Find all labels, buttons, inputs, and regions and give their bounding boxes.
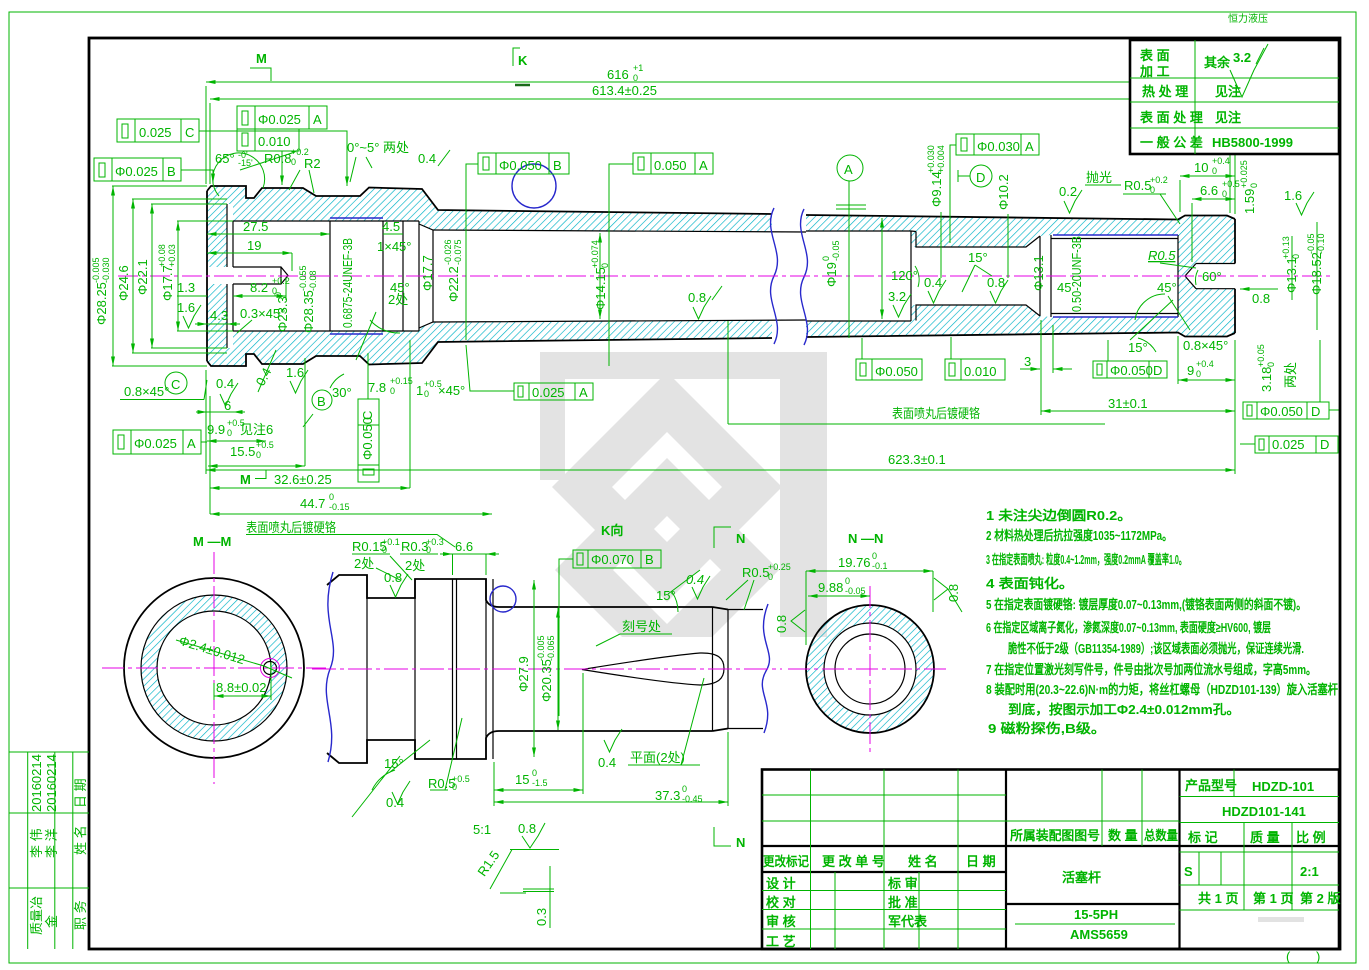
svg-text:1.59: 1.59 bbox=[1242, 189, 1257, 214]
svg-text:6 在指定区域离子氮化，渗氮深度0.07~0.13mm, 表: 6 在指定区域离子氮化，渗氮深度0.07~0.13mm, 表面硬度≥HV600,… bbox=[986, 620, 1271, 635]
svg-text:Φ19: Φ19 bbox=[824, 262, 839, 287]
fcf d0.025 B bbox=[94, 158, 181, 181]
svg-text:0: 0 bbox=[256, 450, 261, 460]
svg-text:+0.13: +0.13 bbox=[1281, 236, 1291, 259]
svg-text:标 记: 标 记 bbox=[1187, 830, 1218, 845]
svg-text:质量冶: 质量冶 bbox=[29, 896, 44, 935]
watermark diamond ring B bbox=[555, 458, 779, 682]
svg-text:+0.074: +0.074 bbox=[590, 240, 600, 268]
svg-text:A: A bbox=[313, 112, 322, 127]
svg-text:Φ28.35: Φ28.35 bbox=[301, 290, 316, 333]
SECTION M-M bbox=[102, 534, 326, 784]
svg-text:Φ28.25: Φ28.25 bbox=[94, 282, 109, 325]
svg-text:4.5: 4.5 bbox=[382, 219, 400, 234]
svg-text:批 准: 批 准 bbox=[888, 895, 918, 910]
svg-text:Φ24.6: Φ24.6 bbox=[116, 265, 131, 301]
svg-text:所属装配图图号: 所属装配图图号 bbox=[1010, 828, 1100, 843]
svg-text:工 艺: 工 艺 bbox=[766, 934, 796, 949]
svg-text:Φ0.030: Φ0.030 bbox=[977, 139, 1020, 154]
two places rotated bbox=[1283, 362, 1298, 388]
svg-text:20160214: 20160214 bbox=[44, 754, 59, 812]
svg-text:): ) bbox=[1316, 949, 1320, 964]
svg-text:-0.065: -0.065 bbox=[546, 635, 556, 661]
svg-text:0: 0 bbox=[845, 576, 850, 586]
fcf 0.050 A bbox=[633, 153, 713, 174]
svg-text:15-5PH: 15-5PH bbox=[1074, 907, 1118, 922]
svg-text:0.4: 0.4 bbox=[386, 795, 404, 810]
svg-text:0.025: 0.025 bbox=[1272, 437, 1305, 452]
svg-text:Φ17.7: Φ17.7 bbox=[160, 265, 175, 301]
svg-text:HDZD101-141: HDZD101-141 bbox=[1222, 804, 1306, 819]
finish 0.8 left bbox=[791, 610, 805, 632]
svg-text:Φ23.3: Φ23.3 bbox=[275, 296, 290, 332]
svg-text:×45°: ×45° bbox=[438, 383, 465, 398]
fcf 0.010 mid bbox=[945, 359, 1005, 380]
shaft outline bottom right bbox=[806, 333, 1235, 338]
svg-text:616: 616 bbox=[607, 67, 629, 82]
left signature strip bbox=[9, 752, 89, 949]
svg-text:0: 0 bbox=[1249, 183, 1259, 188]
svg-text:平面(2处): 平面(2处) bbox=[630, 750, 685, 765]
dia 19 rotated bbox=[821, 240, 841, 287]
svg-text:+0.4: +0.4 bbox=[1196, 359, 1214, 369]
svg-text:19: 19 bbox=[247, 238, 261, 253]
svg-text:D: D bbox=[1153, 363, 1162, 378]
svg-text:0: 0 bbox=[424, 389, 429, 399]
NOTES bbox=[986, 508, 1338, 736]
watermark right bar bbox=[780, 352, 827, 637]
svg-text:B: B bbox=[167, 164, 176, 179]
finish 0.4 rotated bbox=[253, 365, 275, 388]
svg-text:R0.5: R0.5 bbox=[1124, 178, 1151, 193]
svg-text:产品型号: 产品型号 bbox=[1185, 778, 1237, 793]
dia 17.7 rotated bbox=[420, 255, 435, 291]
svg-text:-0.026: -0.026 bbox=[443, 239, 453, 265]
svg-text:AMS5659: AMS5659 bbox=[1070, 927, 1128, 942]
dia 13.1 tol rotated bbox=[1281, 236, 1301, 293]
svg-text:0.8: 0.8 bbox=[1252, 291, 1270, 306]
svg-text:审 核: 审 核 bbox=[766, 914, 796, 929]
outer circle bbox=[806, 605, 934, 733]
svg-text:设 计: 设 计 bbox=[766, 876, 796, 891]
WATERMARK bbox=[540, 12, 1268, 682]
svg-text:1.6: 1.6 bbox=[286, 365, 304, 380]
svg-text:120°: 120° bbox=[891, 268, 918, 283]
svg-text:0.010: 0.010 bbox=[258, 134, 291, 149]
svg-text:0.4: 0.4 bbox=[924, 275, 942, 290]
svg-text:Φ13.1: Φ13.1 bbox=[1031, 255, 1046, 291]
svg-text:(: ( bbox=[1286, 949, 1291, 964]
svg-text:姓 名: 姓 名 bbox=[73, 825, 88, 855]
svg-text:19.76: 19.76 bbox=[838, 555, 871, 570]
svg-text:B: B bbox=[645, 552, 654, 567]
fcf d0.050 D right bbox=[1243, 402, 1329, 419]
svg-text:S: S bbox=[1184, 864, 1193, 879]
svg-text:D: D bbox=[976, 170, 985, 185]
svg-text:Φ0.050: Φ0.050 bbox=[1260, 404, 1303, 419]
svg-text:9.88: 9.88 bbox=[818, 580, 843, 595]
svg-text:抛光: 抛光 bbox=[1086, 170, 1112, 185]
svg-text:Φ0.025: Φ0.025 bbox=[258, 112, 301, 127]
svg-text:0: 0 bbox=[600, 263, 610, 268]
right thread bore blue lines bbox=[1053, 235, 1178, 317]
hatch top band right bbox=[806, 215, 1235, 276]
hatch ring bbox=[806, 605, 934, 733]
left cavity bore lines bbox=[233, 221, 433, 331]
fcf d0.025 A top bbox=[237, 106, 327, 129]
svg-text:-0.1: -0.1 bbox=[872, 561, 888, 571]
svg-text:脆性不低于2级（GB11354-1989）;该区域表面必须抛: 脆性不低于2级（GB11354-1989）;该区域表面必须抛光，保证连续光滑. bbox=[1007, 641, 1304, 656]
svg-text:0.50-20UNF-3B: 0.50-20UNF-3B bbox=[1069, 236, 1084, 312]
svg-text:2:1: 2:1 bbox=[1300, 864, 1319, 879]
watermark left bar bbox=[540, 352, 565, 480]
svg-text:日 期: 日 期 bbox=[73, 778, 88, 808]
hatch top band left bbox=[207, 186, 772, 267]
svg-text:见注6: 见注6 bbox=[240, 422, 273, 437]
svg-text:-0.005: -0.005 bbox=[536, 635, 546, 661]
svg-text:0.4: 0.4 bbox=[598, 755, 616, 770]
svg-text:4 表面钝化。: 4 表面钝化。 bbox=[986, 576, 1074, 591]
shaft left end face bbox=[206, 191, 208, 361]
svg-text:HB5800-1999: HB5800-1999 bbox=[1212, 135, 1293, 150]
svg-text:A: A bbox=[187, 436, 196, 451]
svg-text:+0.05: +0.05 bbox=[1256, 344, 1266, 367]
svg-text:0: 0 bbox=[329, 492, 334, 502]
GREEN ANNOTATIONS MAIN BOTTOM bbox=[113, 300, 1340, 547]
svg-text:1×45°: 1×45° bbox=[377, 239, 411, 254]
svg-text:A: A bbox=[844, 162, 853, 177]
svg-text:0.8: 0.8 bbox=[688, 290, 706, 305]
dia 20.35 rotated bbox=[536, 635, 556, 702]
middle circle bbox=[824, 623, 916, 715]
svg-text:B: B bbox=[317, 394, 326, 409]
svg-text:加 工: 加 工 bbox=[1139, 64, 1170, 79]
svg-text:0°~5° 两处: 0°~5° 两处 bbox=[347, 140, 409, 155]
svg-text:Φ0.050: Φ0.050 bbox=[499, 158, 542, 173]
svg-text:比 例: 比 例 bbox=[1296, 830, 1326, 845]
svg-text:45°: 45° bbox=[1157, 280, 1177, 295]
section arrow N top bbox=[714, 527, 731, 548]
svg-text:32.6±0.25: 32.6±0.25 bbox=[274, 472, 332, 487]
fcf d0.025 A lower left bbox=[113, 430, 201, 454]
K VIEW bbox=[312, 523, 791, 928]
svg-text:8.2: 8.2 bbox=[250, 280, 268, 295]
svg-text:1.6: 1.6 bbox=[1284, 188, 1302, 203]
thread 0.6875 rotated bbox=[340, 238, 355, 328]
hatch ring bbox=[141, 595, 287, 741]
svg-text:+1: +1 bbox=[633, 63, 643, 73]
svg-text:0.8: 0.8 bbox=[946, 584, 961, 602]
svg-text:表面喷丸后镀硬铬: 表面喷丸后镀硬铬 bbox=[246, 520, 336, 535]
fcf d0.070 B bbox=[573, 550, 661, 568]
centrelines bbox=[869, 586, 871, 752]
svg-text:更改标记: 更改标记 bbox=[763, 854, 809, 869]
datum C bbox=[165, 372, 187, 394]
svg-text:0: 0 bbox=[821, 256, 831, 261]
fcf 0.010 top bbox=[237, 129, 299, 151]
break wave right bbox=[801, 209, 808, 345]
svg-text:总数量: 总数量 bbox=[1144, 828, 1178, 843]
dia 10.2 rotated bbox=[996, 174, 1011, 210]
GREEN ANNOTATIONS MAIN TOP bbox=[91, 48, 1326, 366]
svg-text:M —M: M —M bbox=[193, 534, 231, 549]
svg-text:金: 金 bbox=[44, 915, 59, 928]
dia 17.7 plus rotated bbox=[157, 244, 177, 301]
svg-text:5:1: 5:1 bbox=[473, 822, 491, 837]
svg-text:+0.08: +0.08 bbox=[157, 244, 167, 267]
svg-text:45: 45 bbox=[1057, 280, 1071, 295]
svg-text:0: 0 bbox=[1266, 362, 1276, 367]
tip section bbox=[728, 610, 763, 729]
svg-text:K向: K向 bbox=[601, 523, 623, 538]
svg-text:D: D bbox=[1320, 437, 1329, 452]
svg-text:K: K bbox=[518, 53, 528, 68]
svg-text:C: C bbox=[360, 411, 375, 420]
svg-text:校 对: 校 对 bbox=[766, 895, 796, 910]
svg-text:第 1 页: 第 1 页 bbox=[1253, 891, 1293, 906]
svg-text:Φ22.2: Φ22.2 bbox=[446, 266, 461, 302]
small hole bbox=[264, 662, 277, 675]
svg-text:热 处 理: 热 处 理 bbox=[1142, 84, 1188, 99]
svg-text:-0.15: -0.15 bbox=[329, 502, 350, 512]
svg-text:15°: 15° bbox=[968, 250, 988, 265]
svg-text:0.4: 0.4 bbox=[216, 376, 234, 391]
right end slot bbox=[1185, 264, 1235, 289]
shaft right end face bbox=[1234, 219, 1236, 333]
dim 616 bbox=[206, 81, 1235, 83]
inner circle bbox=[835, 634, 905, 704]
svg-text:6.6: 6.6 bbox=[1200, 183, 1218, 198]
outline bottom bbox=[327, 729, 728, 764]
svg-text:+0.25: +0.25 bbox=[768, 562, 791, 572]
dia 13.1 rotated bbox=[1031, 255, 1046, 291]
svg-text:37.3: 37.3 bbox=[655, 788, 680, 803]
break wave right bbox=[762, 604, 769, 733]
svg-text:1 未注尖边倒圆R0.2。: 1 未注尖边倒圆R0.2。 bbox=[986, 508, 1132, 523]
right thread bore black lines bbox=[1051, 235, 1178, 317]
svg-text:0.8: 0.8 bbox=[774, 615, 789, 633]
svg-text:共 1 页: 共 1 页 bbox=[1198, 891, 1238, 906]
svg-text:姓 名: 姓 名 bbox=[907, 854, 938, 869]
svg-text:0: 0 bbox=[872, 551, 877, 561]
dia 9.14 rotated bbox=[926, 145, 946, 207]
svg-text:+0.2: +0.2 bbox=[272, 276, 290, 286]
svg-text:表面喷丸后镀硬铬: 表面喷丸后镀硬铬 bbox=[892, 406, 980, 421]
svg-text:-0.08: -0.08 bbox=[308, 270, 318, 291]
dia 2.4 label bbox=[177, 633, 247, 667]
svg-text:4.3: 4.3 bbox=[210, 308, 228, 323]
dia 14.15 rotated bbox=[590, 240, 610, 310]
section arrow N bottom bbox=[714, 827, 731, 846]
main bore right bbox=[806, 231, 1051, 321]
internal verticals bbox=[367, 575, 728, 763]
svg-text:0.025: 0.025 bbox=[532, 385, 565, 400]
svg-text:A: A bbox=[699, 158, 708, 173]
svg-text:Φ0.070: Φ0.070 bbox=[591, 552, 634, 567]
svg-text:0.2: 0.2 bbox=[1059, 184, 1077, 199]
svg-text:20160214: 20160214 bbox=[29, 754, 44, 812]
svg-text:职 务: 职 务 bbox=[73, 900, 88, 930]
blue detail circle B zone bbox=[512, 164, 556, 208]
svg-text:HDZD-101: HDZD-101 bbox=[1252, 779, 1314, 794]
fcf d0.050 D mid bbox=[1093, 361, 1167, 378]
svg-text:0: 0 bbox=[227, 428, 232, 438]
svg-text:613.4±0.25: 613.4±0.25 bbox=[592, 83, 657, 98]
svg-text:+0.5: +0.5 bbox=[1222, 179, 1240, 189]
svg-text:0.8×45°: 0.8×45° bbox=[1183, 338, 1228, 353]
fcf d0.030 A bbox=[956, 134, 1039, 155]
dia 28.35 rotated bbox=[298, 265, 318, 333]
svg-text:0: 0 bbox=[532, 768, 537, 778]
svg-text:-0.005: -0.005 bbox=[91, 257, 101, 283]
svg-text:0.050: 0.050 bbox=[654, 158, 687, 173]
svg-text:9 磁粉探伤,B级。: 9 磁粉探伤,B级。 bbox=[988, 721, 1106, 736]
svg-text:0: 0 bbox=[390, 386, 395, 396]
svg-text:质 量: 质 量 bbox=[1250, 830, 1280, 845]
svg-text:标 审: 标 审 bbox=[887, 876, 918, 891]
svg-text:Φ0.025: Φ0.025 bbox=[115, 164, 158, 179]
svg-text:0.3: 0.3 bbox=[534, 908, 549, 926]
R1.5 rotated bbox=[474, 848, 502, 879]
svg-text:+0.15: +0.15 bbox=[390, 376, 413, 386]
svg-text:-1.5: -1.5 bbox=[532, 778, 548, 788]
shaft outline bottom left bbox=[207, 338, 772, 366]
watermark top bar bbox=[540, 352, 827, 379]
svg-text:-0.05: -0.05 bbox=[845, 586, 866, 596]
svg-text:623.3±0.1: 623.3±0.1 bbox=[888, 452, 946, 467]
svg-text:0.4: 0.4 bbox=[418, 151, 436, 166]
svg-text:0: 0 bbox=[273, 292, 283, 297]
svg-text:0.8: 0.8 bbox=[518, 821, 536, 836]
groove detail circle bbox=[490, 586, 516, 612]
svg-text:+0.025: +0.025 bbox=[1239, 160, 1249, 188]
svg-text:3.18: 3.18 bbox=[1259, 367, 1274, 392]
centreline bbox=[312, 668, 782, 670]
dia 22.1 rotated bbox=[135, 259, 150, 295]
svg-text:Φ17.7: Φ17.7 bbox=[420, 255, 435, 291]
svg-text:0.8×45°: 0.8×45° bbox=[124, 384, 169, 399]
svg-text:+0.4: +0.4 bbox=[1212, 156, 1230, 166]
svg-text:-0.05: -0.05 bbox=[1306, 233, 1316, 254]
svg-text:31±0.1: 31±0.1 bbox=[1108, 396, 1148, 411]
dim 1.59 rotated bbox=[1239, 160, 1259, 214]
svg-text:其余: 其余 bbox=[1204, 55, 1231, 70]
svg-text:0: 0 bbox=[1222, 189, 1227, 199]
svg-text:3.2: 3.2 bbox=[888, 289, 906, 304]
svg-text:C: C bbox=[185, 125, 194, 140]
left cavity thread blue lines bbox=[330, 218, 383, 334]
svg-text:2处: 2处 bbox=[405, 558, 425, 573]
svg-text:Φ9.14: Φ9.14 bbox=[929, 171, 944, 207]
svg-text:+0.2: +0.2 bbox=[1150, 175, 1168, 185]
hatch bottom band right bbox=[806, 276, 1235, 337]
svg-text:恒力液压: 恒力液压 bbox=[1228, 12, 1268, 25]
svg-text:两处: 两处 bbox=[1283, 362, 1298, 388]
svg-text:0: 0 bbox=[633, 73, 638, 83]
svg-text:0: 0 bbox=[1196, 369, 1201, 379]
detail sketch lines bbox=[490, 850, 559, 894]
fcf d0.050 B bbox=[478, 153, 569, 174]
MAIN VIEW bbox=[118, 164, 1330, 366]
svg-text:8 装配时用(20.3~22.6)N·m的力矩，将丝杠螺母（: 8 装配时用(20.3~22.6)N·m的力矩，将丝杠螺母（HDZD101-13… bbox=[986, 682, 1338, 697]
shaft outline top left bbox=[207, 186, 772, 214]
svg-text:8.8±0.02: 8.8±0.02 bbox=[216, 680, 267, 695]
svg-text:R0.8: R0.8 bbox=[264, 151, 291, 166]
svg-text:Φ0.050: Φ0.050 bbox=[1110, 363, 1153, 378]
thread 0.50-20UNF rotated bbox=[1069, 236, 1084, 312]
svg-text:7 在指定位置激光刻写件号，件号由批次号加两位流水号组成，字: 7 在指定位置激光刻写件号，件号由批次号加两位流水号组成，字高5mm。 bbox=[986, 662, 1316, 677]
svg-text:0.025: 0.025 bbox=[139, 125, 172, 140]
svg-text:Φ0.025: Φ0.025 bbox=[134, 436, 177, 451]
top right spec table bbox=[1130, 40, 1339, 154]
svg-text:7.8: 7.8 bbox=[368, 380, 386, 395]
fcf 0.025 D right bbox=[1255, 436, 1338, 453]
hatch bottom band left bbox=[207, 284, 772, 366]
svg-text:表 面: 表 面 bbox=[1139, 48, 1170, 63]
main centreline bbox=[118, 275, 1330, 277]
watermark diamond ring A bbox=[552, 372, 782, 602]
svg-text:44.7: 44.7 bbox=[300, 496, 325, 511]
main bore left bbox=[419, 224, 806, 328]
svg-text:R0.5: R0.5 bbox=[742, 565, 769, 580]
svg-text:第 2 版: 第 2 版 bbox=[1300, 891, 1340, 906]
svg-text:5 在指定表面镀硬铬: 镀层厚度0.07~0.13mm,(镀: 5 在指定表面镀硬铬: 镀层厚度0.07~0.13mm,(镀铬表面两侧的斜面不镀… bbox=[986, 597, 1306, 612]
break wave left bbox=[771, 208, 778, 344]
svg-text:+0.030: +0.030 bbox=[926, 145, 936, 173]
svg-text:更 改 单 号: 更 改 单 号 bbox=[822, 854, 885, 869]
svg-text:0: 0 bbox=[1212, 166, 1217, 176]
svg-text:一 般 公 差: 一 般 公 差 bbox=[1140, 135, 1203, 150]
fcf 0.050 C vertical bbox=[358, 399, 379, 482]
svg-text:李 洋: 李 洋 bbox=[44, 828, 59, 858]
outline top bbox=[327, 575, 728, 610]
shaft outline top right bbox=[806, 215, 1235, 220]
svg-text:M: M bbox=[256, 51, 267, 66]
svg-text:R0.5: R0.5 bbox=[1148, 248, 1176, 263]
svg-text:M: M bbox=[240, 472, 251, 487]
svg-text:军代表: 军代表 bbox=[888, 914, 928, 929]
svg-text:0: 0 bbox=[291, 157, 296, 167]
datum D bbox=[970, 165, 992, 187]
dia 23.3 rotated bbox=[273, 292, 290, 332]
dia 18.52 rotated bbox=[1306, 233, 1326, 295]
datum B bbox=[312, 390, 332, 410]
svg-text:0.8: 0.8 bbox=[384, 570, 402, 585]
svg-text:活塞杆: 活塞杆 bbox=[1062, 870, 1101, 885]
svg-text:-0.030: -0.030 bbox=[101, 257, 111, 283]
outer circle bbox=[124, 578, 304, 758]
svg-text:-0.055: -0.055 bbox=[298, 265, 308, 291]
svg-text:Φ0.050: Φ0.050 bbox=[875, 364, 918, 379]
svg-text:3 在指定表面喷丸: 粒度0.4~1.2mm，强度0.2mm: 3 在指定表面喷丸: 粒度0.4~1.2mm，强度0.2mmA 覆盖率1.0。 bbox=[986, 552, 1186, 567]
svg-text:R0.3: R0.3 bbox=[401, 539, 428, 554]
fcf 0.025 C bbox=[117, 119, 199, 142]
shaft cap inner face bbox=[227, 204, 233, 348]
dia 22.2 rotated bbox=[443, 239, 463, 302]
svg-text:0.010: 0.010 bbox=[964, 364, 997, 379]
svg-text:李 伟: 李 伟 bbox=[29, 828, 44, 858]
svg-text:R2: R2 bbox=[304, 156, 321, 171]
middle circle bbox=[141, 595, 287, 741]
svg-text:15.5: 15.5 bbox=[230, 444, 255, 459]
svg-text:数 量: 数 量 bbox=[1108, 828, 1138, 843]
svg-text:0: 0 bbox=[682, 784, 687, 794]
svg-text:+0.03: +0.03 bbox=[167, 244, 177, 267]
svg-text:1: 1 bbox=[416, 383, 423, 398]
svg-text:到底，按图示加工Φ2.4±0.012mm孔。: 到底，按图示加工Φ2.4±0.012mm孔。 bbox=[1008, 702, 1240, 717]
svg-text:Φ20.35: Φ20.35 bbox=[539, 659, 554, 702]
svg-text:N: N bbox=[736, 531, 745, 546]
